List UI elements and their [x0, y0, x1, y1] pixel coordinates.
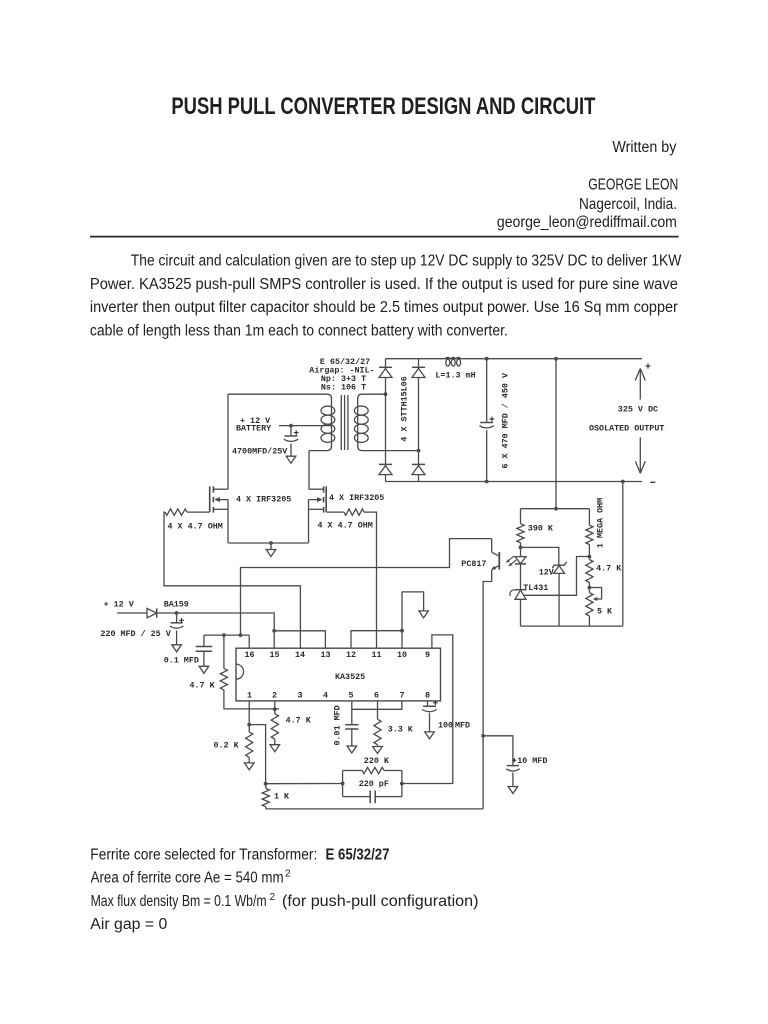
- resistor R 4.7 K (pin2): [271, 714, 278, 740]
- diode D2 (top right): [412, 366, 425, 368]
- wire: bridge left rail: [385, 359, 387, 482]
- capacitor 10 MFD: [481, 734, 485, 738]
- transformer T1 secondary winding: [358, 394, 386, 398]
- resistor R 1 MEGA OHM: [588, 509, 590, 526]
- wire: pin 12 to pin 10, ground: [351, 631, 402, 649]
- transistor Q2 4 X IRF3205: [309, 488, 324, 490]
- svg-text:100: 100: [438, 720, 453, 730]
- svg-text:Area of ferrite core Ae = 540: Area of ferrite core Ae = 540 mm: [91, 870, 284, 887]
- svg-text:1 K: 1 K: [274, 792, 290, 802]
- svg-text:KA3525: KA3525: [335, 672, 365, 682]
- ground for 0.1MFD cap: [199, 666, 209, 673]
- ground for 3.3K: [373, 747, 383, 754]
- wire: feedback sense from +rail: [555, 359, 557, 509]
- wire: bottom return: [266, 808, 483, 810]
- wire: bridge right rail: [418, 359, 420, 482]
- svg-text:PUSH PULL CONVERTER DESIGN AND: PUSH PULL CONVERTER DESIGN AND CIRCUIT: [171, 93, 595, 120]
- svg-text:0.1 MFD: 0.1 MFD: [164, 656, 199, 666]
- svg-text:Ferrite core selected for Tran: Ferrite core selected for Transformer:: [90, 846, 317, 863]
- svg-text:OSOLATED OUTPUT: OSOLATED OUTPUT: [589, 423, 664, 433]
- svg-text:11: 11: [371, 650, 381, 660]
- wire: pin 5 to pin 7: [352, 701, 402, 709]
- svg-text:cable of length less than 1m e: cable of length less than 1m each to con…: [90, 323, 508, 340]
- wire: pin 9 compensation: [402, 635, 453, 784]
- svg-text:L=1.3 mH: L=1.3 mH: [435, 371, 475, 381]
- wire: output negative rail: [386, 481, 643, 483]
- capacitor C-out 6 X 470 MFD / 450 V: [486, 359, 488, 423]
- svg-text:Max flux density Bm = 0.1 Wb/m: Max flux density Bm = 0.1 Wb/m: [91, 893, 267, 910]
- svg-text:10 MFD: 10 MFD: [517, 756, 547, 766]
- node: battery junction: [289, 424, 293, 428]
- svg-text:4 X 4.7 OHM: 4 X 4.7 OHM: [318, 521, 373, 531]
- svg-text:Power. KA3525 push-pull SMPS c: Power. KA3525 push-pull SMPS controller …: [90, 276, 678, 293]
- resistor R 220 K with capacitor 220 pF: [343, 770, 363, 772]
- svg-text:220 MFD / 25 V: 220 MFD / 25 V: [100, 629, 171, 639]
- svg-text:4.7 K: 4.7 K: [286, 715, 312, 725]
- wire: pin 15 to pin 13: [274, 631, 325, 648]
- wire: VCC to pin 15: [157, 613, 275, 648]
- inductor L1 1.3mH: [446, 359, 450, 366]
- wire: RC left to 1K node: [266, 783, 343, 785]
- diode D1 (top left): [379, 366, 392, 368]
- resistor R-gate1 4 X 4.7 OHM: [187, 511, 210, 513]
- capacitor 0.1 MFD: [203, 635, 205, 646]
- zener diode 12V: [552, 562, 566, 568]
- svg-text:4: 4: [323, 691, 328, 701]
- svg-text:9: 9: [425, 650, 430, 660]
- svg-text:4700MFD/25V: 4700MFD/25V: [232, 446, 288, 456]
- svg-text:325 V DC: 325 V DC: [618, 405, 658, 415]
- wire: +325V top rail: [386, 358, 445, 360]
- wire: feedback return to negative rail: [622, 482, 624, 627]
- resistor R 390 K: [520, 509, 522, 524]
- svg-text:TL431: TL431: [523, 583, 548, 593]
- svg-text:12V: 12V: [539, 567, 555, 577]
- wire: TL431 ref to divider tap: [524, 557, 590, 596]
- ground for 4700MFD cap: [286, 456, 296, 463]
- ground for 0.2K: [244, 763, 254, 770]
- svg-text:220 pF: 220 pF: [359, 779, 389, 789]
- svg-text:inverter then output filter ca: inverter then output filter capacitor sh…: [90, 299, 678, 316]
- svg-text:Nagercoil, India.: Nagercoil, India.: [579, 196, 677, 213]
- svg-text:BATTERY: BATTERY: [236, 424, 272, 434]
- svg-text:PC817: PC817: [461, 559, 486, 569]
- wire: feedback bottom: [521, 625, 623, 627]
- svg-text:10: 10: [397, 650, 407, 660]
- svg-text:MFD: MFD: [455, 720, 470, 730]
- diode D4 (bottom right): [412, 463, 425, 465]
- wire: pin 2: [274, 701, 276, 714]
- svg-text:4.7 K: 4.7 K: [190, 680, 216, 690]
- ground for 100MFD: [425, 732, 435, 739]
- svg-text:1: 1: [247, 691, 252, 701]
- svg-text:4.7 K: 4.7 K: [596, 564, 622, 574]
- svg-text:2: 2: [285, 869, 291, 880]
- shunt regulator TL431: [515, 589, 526, 591]
- svg-text:6 X 470 MFD / 450 V: 6 X 470 MFD / 450 V: [501, 372, 511, 468]
- svg-text:GEORGE LEON: GEORGE LEON: [588, 177, 678, 194]
- capacitor 100 MFD (pin 8): [427, 701, 429, 706]
- opto LED of PC817: [520, 547, 522, 556]
- svg-text:E 65/32/27: E 65/32/27: [326, 846, 390, 863]
- op-amp U1 KA3525 body: [236, 648, 441, 701]
- svg-text:Written by: Written by: [612, 139, 676, 156]
- svg-text:5 K: 5 K: [597, 606, 613, 616]
- svg-text:0.2 K: 0.2 K: [214, 740, 240, 750]
- capacitor 4700MFD/25V: [290, 426, 292, 436]
- capacitor 0.01 MFD: [351, 701, 353, 725]
- svg-text:6: 6: [374, 691, 379, 701]
- output - arrow: [639, 437, 641, 473]
- wire: pin 1: [248, 701, 250, 732]
- resistor R-gate2 4 X 4.7 OHM: [326, 511, 344, 513]
- wire: pin 16 node: [204, 634, 249, 636]
- svg-text:390 K: 390 K: [528, 523, 554, 533]
- svg-text:The circuit and calculation gi: The circuit and calculation given are to…: [131, 253, 682, 270]
- svg-text:220 K: 220 K: [364, 756, 390, 766]
- svg-text:15: 15: [269, 650, 279, 660]
- wire: source rail: [228, 542, 309, 544]
- svg-text:4 X STTH15L06: 4 X STTH15L06: [400, 376, 410, 441]
- svg-text:8: 8: [425, 691, 430, 701]
- transistor Q1 4 X IRF3205: [227, 394, 229, 489]
- svg-text:4 X 4.7 OHM: 4 X 4.7 OHM: [168, 521, 223, 531]
- node: secondary bottom to bridge: [417, 449, 421, 453]
- transformer T1 core: [340, 395, 342, 450]
- wire: divider top node: [521, 508, 590, 510]
- svg-text:+ 12 V: + 12 V: [104, 600, 135, 610]
- svg-text:(for push-pull configuration): (for push-pull configuration): [282, 893, 479, 910]
- svg-text:12: 12: [346, 650, 356, 660]
- ground for MOSFET sources: [269, 541, 273, 545]
- diode D3 (bottom left): [379, 463, 392, 465]
- svg-text:BA159: BA159: [164, 600, 189, 610]
- svg-text:7: 7: [399, 691, 404, 701]
- svg-text:4 X IRF3205: 4 X IRF3205: [329, 493, 384, 503]
- wire: primary bottom lead to Q2 drain: [308, 451, 310, 490]
- svg-text:Ns: 106 T: Ns: 106 T: [321, 383, 366, 393]
- wire: zener branch: [521, 547, 559, 565]
- svg-text:5: 5: [348, 691, 353, 701]
- wire: Q1 gate to pin 14: [164, 512, 300, 648]
- ground for 220MFD cap: [172, 645, 182, 652]
- svg-text:2: 2: [270, 892, 276, 903]
- ground for 0.01MFD: [347, 746, 357, 753]
- svg-text:14: 14: [295, 650, 305, 660]
- svg-text:13: 13: [320, 650, 330, 660]
- resistor R 1 K: [262, 788, 269, 806]
- svg-text:george_leon@rediffmail.com: george_leon@rediffmail.com: [497, 214, 677, 231]
- svg-text:1 MEGA OHM: 1 MEGA OHM: [595, 498, 605, 548]
- wire: pin 6: [377, 701, 379, 719]
- svg-text:3.3 K: 3.3 K: [388, 724, 414, 734]
- ground for 4.7K pin2: [270, 745, 280, 752]
- transformer T1 primary winding: [228, 394, 332, 398]
- svg-text:Air gap = 0: Air gap = 0: [90, 916, 167, 933]
- horizontal rule: [90, 236, 679, 238]
- svg-text:16: 16: [244, 650, 254, 660]
- wire: pin 1 to RC node: [249, 725, 265, 784]
- resistor R 0.2 K: [246, 732, 253, 758]
- wire: Q2 gate to pin 11: [364, 512, 377, 648]
- potentiometer 5 K: [586, 593, 593, 617]
- svg-text:0.01 MFD: 0.01 MFD: [332, 705, 342, 745]
- ground for 10MFD: [508, 787, 518, 794]
- output + arrow: [639, 369, 641, 400]
- svg-text:2: 2: [272, 691, 277, 701]
- node: secondary top to bridge: [384, 392, 388, 396]
- ground for pin 10: [419, 611, 429, 618]
- resistor R 3.3 K: [374, 719, 381, 745]
- capacitor 220 MFD / 25 V: [176, 613, 178, 623]
- wire: battery center tap: [279, 425, 333, 427]
- resistor R 4.7 K (pin1): [223, 635, 225, 668]
- svg-text:3: 3: [297, 691, 302, 701]
- svg-text:4 X IRF3205: 4 X IRF3205: [236, 494, 291, 504]
- opto transistor PC817: [241, 539, 492, 636]
- resistor R 4.7 K (divider): [588, 557, 590, 560]
